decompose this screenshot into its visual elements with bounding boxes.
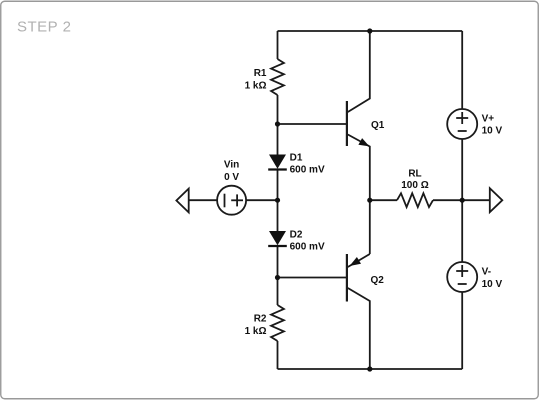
- svg-text:V+: V+: [482, 114, 495, 125]
- svg-text:1 kΩ: 1 kΩ: [245, 81, 267, 92]
- svg-text:R1: R1: [254, 68, 267, 79]
- svg-text:Q2: Q2: [371, 275, 385, 286]
- svg-text:V-: V-: [482, 267, 491, 278]
- svg-text:1 kΩ: 1 kΩ: [245, 326, 267, 337]
- svg-text:R2: R2: [254, 314, 267, 325]
- svg-text:RL: RL: [408, 169, 421, 180]
- svg-text:600 mV: 600 mV: [290, 164, 325, 175]
- svg-text:D1: D1: [290, 153, 303, 164]
- svg-text:D2: D2: [290, 230, 303, 241]
- svg-text:100 Ω: 100 Ω: [401, 180, 428, 191]
- svg-text:600 mV: 600 mV: [290, 241, 325, 252]
- svg-text:Vin: Vin: [224, 159, 239, 170]
- svg-text:10 V: 10 V: [482, 126, 503, 137]
- svg-text:10 V: 10 V: [482, 279, 503, 290]
- svg-text:STEP 2: STEP 2: [17, 19, 71, 36]
- svg-text:0 V: 0 V: [224, 172, 239, 183]
- svg-text:Q1: Q1: [371, 120, 385, 131]
